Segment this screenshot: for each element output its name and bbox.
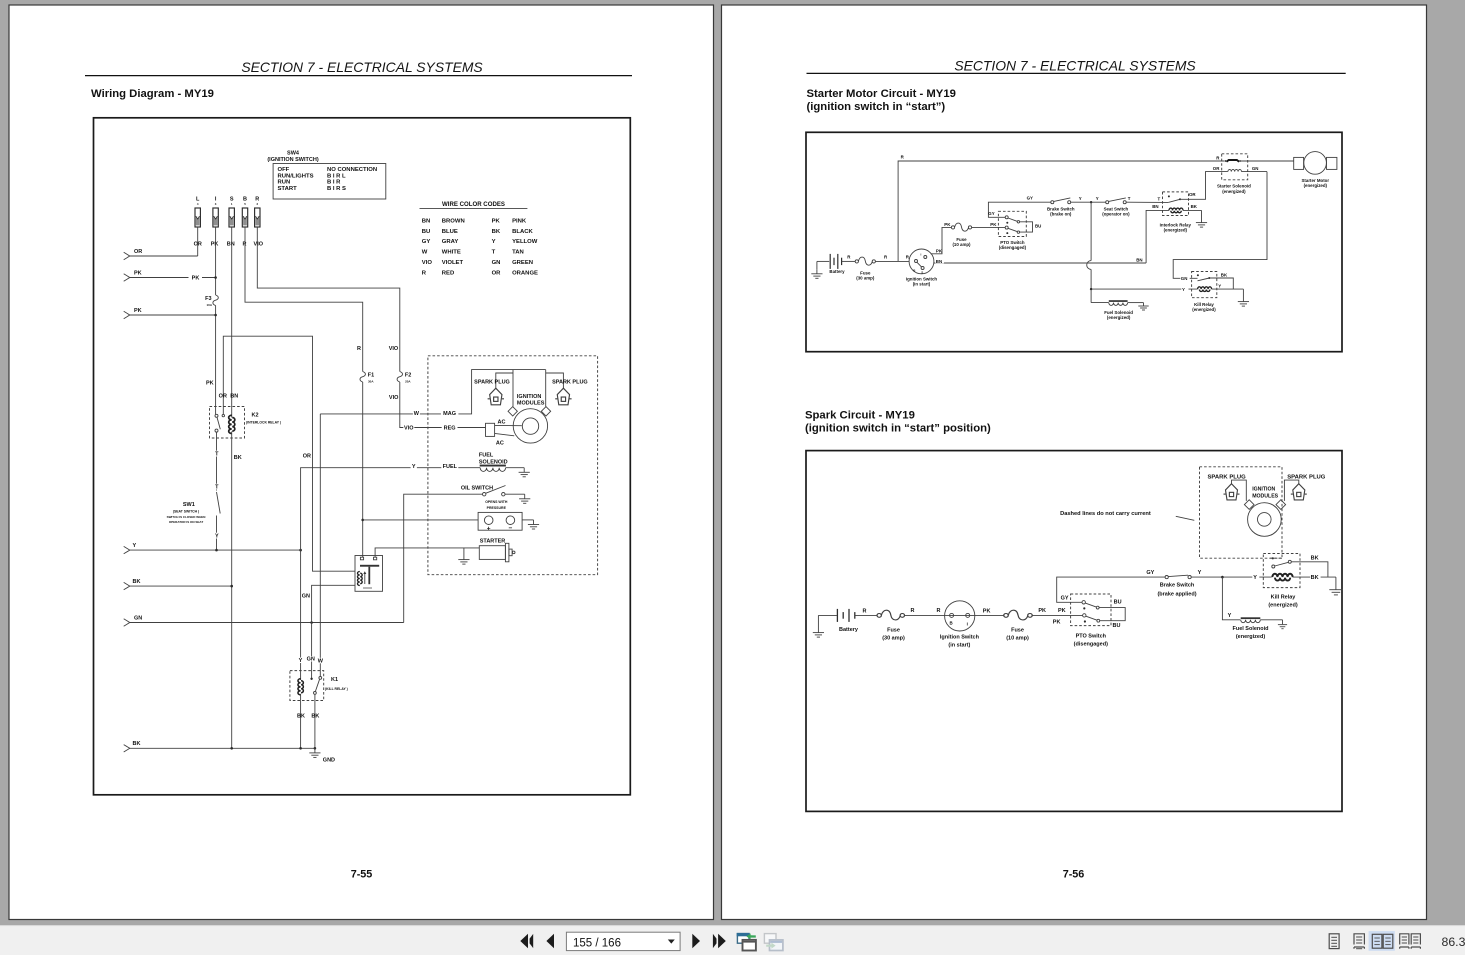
svg-text:155 / 166: 155 / 166: [573, 937, 621, 949]
ground battery left: [818, 614, 837, 616]
svg-text:GN: GN: [1252, 166, 1259, 171]
fuse 30 amp: [877, 610, 904, 620]
svg-text:(brake applied): (brake applied): [1157, 592, 1196, 598]
relay K2 coil: [229, 415, 235, 433]
wire Y drop to fuel solenoid: [1222, 577, 1240, 620]
svg-text:BN: BN: [227, 241, 235, 247]
svg-text:FUEL: FUEL: [443, 464, 458, 470]
toolbar background: [0, 926, 1465, 955]
svg-text:GY: GY: [1061, 596, 1069, 602]
svg-text:RUN: RUN: [278, 180, 291, 186]
ignition module left: [508, 407, 517, 416]
svg-text:25A: 25A: [405, 379, 411, 383]
svg-text:SPARK PLUG: SPARK PLUG: [1287, 475, 1326, 481]
relay K1 kill relay box: [290, 671, 324, 701]
kill relay coil: [1198, 287, 1212, 292]
svg-text:YELLOW: YELLOW: [512, 239, 538, 245]
svg-text:(SEAT SWITCH ): (SEAT SWITCH ): [173, 510, 199, 514]
svg-text:PK: PK: [134, 271, 142, 277]
wire GY PTO to brake switch: [988, 202, 1050, 217]
facing pages view icon selected: [1369, 931, 1395, 951]
wire W magneto to MAG label line: [320, 370, 545, 414]
ground fuel solenoid: [1143, 303, 1145, 306]
svg-text:SPARK PLUG: SPARK PLUG: [1208, 475, 1247, 481]
svg-text:OFF: OFF: [278, 167, 290, 173]
svg-text:SW1: SW1: [183, 502, 195, 508]
svg-text:PRESSURE: PRESSURE: [487, 506, 507, 510]
wire R battery to fuse: [842, 260, 856, 262]
wire GN entry to oil switch riser: [130, 622, 404, 624]
wire pin L stem: [197, 227, 199, 256]
engine dashed boundary box: [1200, 467, 1283, 558]
svg-text:BK: BK: [234, 455, 242, 461]
svg-text:BROWN: BROWN: [442, 218, 465, 224]
ground GND: [309, 748, 320, 757]
kill relay box: [1263, 554, 1300, 588]
svg-text:Y: Y: [1253, 575, 1257, 581]
svg-text:Y: Y: [1096, 196, 1099, 201]
ground kill relay: [1242, 289, 1244, 297]
wire pin I vertical upper: [215, 227, 217, 295]
wire BN ignition switch to interlock riser: [934, 262, 1146, 264]
single page view icon: [1329, 934, 1339, 949]
svg-text:B I R L: B I R L: [327, 173, 346, 179]
header underline: [85, 75, 632, 77]
svg-text:BU: BU: [1114, 599, 1122, 605]
wire VIO fuse F2 to REG line: [400, 382, 486, 428]
svg-text:PK: PK: [1053, 619, 1061, 625]
relay K2 interlock relay box: [210, 407, 245, 439]
starter solenoid block: [355, 556, 383, 592]
junction dots on PK vertical: [214, 276, 217, 279]
wire BN riser to interlock coil: [1146, 210, 1169, 263]
relay K2 switch contact: [215, 414, 218, 417]
svg-text:Y: Y: [1079, 196, 1082, 201]
svg-text:BK: BK: [1221, 272, 1228, 277]
kill relay box: [1192, 272, 1217, 298]
svg-text:(INTERLOCK RELAY ): (INTERLOCK RELAY ): [246, 421, 281, 425]
svg-text:W: W: [414, 411, 420, 417]
svg-text:BK: BK: [297, 714, 305, 720]
svg-text:(10 amp): (10 amp): [952, 242, 971, 247]
wire pin I vertical lower PK to K2: [215, 306, 217, 415]
kill relay coil: [1272, 574, 1292, 581]
svg-text:R: R: [863, 608, 867, 614]
svg-text:I: I: [967, 621, 968, 626]
svg-text:BN: BN: [230, 393, 238, 399]
previous page button: [546, 934, 554, 949]
wire BN pin S to K2 coil: [231, 227, 233, 418]
PTO switch box: [1071, 594, 1111, 626]
svg-text:BU: BU: [1113, 623, 1121, 629]
svg-text:TAN: TAN: [512, 250, 524, 256]
wire BK K1 coil to ground bus: [300, 694, 302, 749]
facing continuous view icon: [1400, 934, 1421, 949]
svg-text:(10 amp): (10 amp): [1006, 635, 1029, 641]
svg-text:SPARK PLUG: SPARK PLUG: [552, 379, 588, 385]
node PK harness entry 1: [124, 274, 130, 281]
page number field: [566, 932, 680, 950]
connector pin S1: [227, 197, 235, 248]
wire PK ignition to fuse 10: [931, 227, 952, 253]
brake switch (brake applied): [1165, 576, 1168, 579]
wire GN branch to engine block and K1: [312, 585, 355, 678]
svg-text:Y: Y: [299, 658, 303, 664]
svg-text:Battery: Battery: [829, 269, 845, 274]
svg-text:START: START: [278, 186, 298, 192]
svg-text:AC: AC: [498, 420, 506, 426]
wire T K2 to seat switch SW1: [216, 432, 218, 490]
svg-text:(ignition switch in “start”): (ignition switch in “start”): [807, 101, 946, 113]
ignition module right: [541, 407, 550, 416]
svg-text:(in start): (in start): [948, 643, 970, 649]
ground starter: [463, 548, 465, 560]
fuse F3 10A: [213, 295, 218, 306]
wire GN solenoid to kill relay: [1173, 172, 1267, 279]
svg-text:Dashed lines do not carry curr: Dashed lines do not carry current: [1060, 511, 1151, 517]
wire R fuse F1 to solenoid block terminal: [362, 382, 364, 557]
svg-text:Ignition Switch: Ignition Switch: [940, 635, 980, 641]
svg-text:Starter Motor Circuit - MY19: Starter Motor Circuit - MY19: [807, 88, 956, 100]
svg-text:(brake on): (brake on): [1050, 212, 1072, 217]
wire VIO to REG done above; labels on REG line: [403, 425, 414, 430]
seat switch SW1: [217, 492, 221, 514]
svg-text:(ignition switch in “start” po: (ignition switch in “start” position): [805, 423, 991, 435]
svg-text:Y: Y: [133, 543, 137, 549]
svg-text:AC: AC: [496, 440, 504, 446]
wire R junction to engine connector block: [363, 519, 478, 521]
svg-text:BLACK: BLACK: [512, 229, 533, 235]
wire Y brake to seat switch: [1071, 201, 1106, 203]
svg-text:OR: OR: [134, 249, 142, 255]
svg-text:FUEL: FUEL: [479, 453, 494, 459]
svg-text:10A: 10A: [206, 303, 212, 307]
svg-text:GN: GN: [307, 656, 315, 662]
svg-text:(energized): (energized): [1236, 634, 1266, 640]
seat switch (operator on): [1106, 201, 1109, 204]
svg-text:(IGNITION SWITCH): (IGNITION SWITCH): [267, 157, 318, 163]
svg-text:7-55: 7-55: [351, 869, 373, 881]
continuous view icon: [1354, 934, 1364, 949]
wire PK entry to pin I vertical: [130, 277, 216, 279]
spark plug left: [488, 388, 504, 405]
ground connector block: [522, 519, 533, 521]
wire Y riser to fuel solenoid line: [301, 468, 481, 550]
header underline right: [807, 72, 1346, 74]
svg-text:(energized): (energized): [1192, 307, 1216, 312]
svg-text:K2: K2: [252, 413, 259, 419]
svg-text:Y: Y: [1182, 287, 1185, 292]
svg-text:OR: OR: [303, 454, 311, 460]
svg-text:Fuse: Fuse: [887, 628, 900, 634]
interlock relay coil: [1169, 208, 1183, 213]
wire GY PTO to brake switch: [1057, 577, 1165, 602]
svg-text:OR: OR: [219, 393, 227, 399]
svg-text:VIO: VIO: [389, 395, 399, 401]
wire GN riser to oil switch: [404, 494, 483, 622]
wire VIO pin R to fuse F2: [257, 227, 400, 372]
fuel solenoid coil: [480, 465, 506, 467]
fuse F1 30A: [360, 372, 365, 383]
ignition switch (in start): [909, 249, 934, 274]
wire R fuse to ignition switch: [875, 260, 909, 262]
svg-text:GY: GY: [422, 239, 431, 245]
starter solenoid contact R: [1227, 160, 1240, 162]
svg-text:OR: OR: [1213, 166, 1220, 171]
svg-text:86.36%: 86.36%: [1442, 935, 1465, 949]
interlock relay box: [1163, 192, 1189, 216]
next page button: [692, 934, 700, 949]
svg-text:GY: GY: [1027, 196, 1033, 201]
starter circuit frame: [806, 132, 1342, 351]
svg-text:BU: BU: [1035, 224, 1041, 229]
flywheel magneto: [1248, 503, 1282, 537]
svg-text:−: −: [509, 525, 513, 532]
svg-text:PK: PK: [990, 222, 997, 227]
last page button: [713, 934, 717, 948]
svg-text:OPERATOR IS ON SEAT: OPERATOR IS ON SEAT: [169, 520, 204, 524]
svg-text:GN: GN: [302, 593, 310, 599]
node BK ground bus entry: [124, 745, 130, 752]
svg-text:B I R S: B I R S: [327, 186, 346, 192]
svg-text:PK: PK: [936, 248, 943, 253]
svg-text:IGNITION: IGNITION: [517, 394, 541, 400]
svg-text:BU: BU: [422, 229, 431, 235]
fuse 10 amp: [1004, 610, 1032, 620]
wire T seat to interlock relay: [1126, 201, 1168, 203]
fuel solenoid: [1109, 300, 1128, 302]
svg-text:(KILL RELAY ): (KILL RELAY ): [325, 687, 348, 691]
wire BK kill switch to main: [1291, 562, 1328, 577]
svg-text:Y: Y: [215, 534, 219, 540]
svg-text:(disengaged): (disengaged): [999, 245, 1027, 250]
svg-text:Fuel Solenoid: Fuel Solenoid: [1232, 626, 1268, 632]
svg-text:MODULES: MODULES: [1252, 493, 1278, 499]
wire OR interlock to starter solenoid coil: [1180, 172, 1228, 200]
wire PK fuse to PTO: [1032, 614, 1083, 616]
svg-text:SW4: SW4: [287, 150, 300, 156]
svg-text:R: R: [357, 346, 361, 352]
svg-text:VIO: VIO: [422, 260, 433, 266]
hop of Y drop over BN wire: [1087, 261, 1091, 270]
svg-text:K1: K1: [331, 677, 338, 683]
svg-text:Spark Circuit - MY19: Spark Circuit - MY19: [805, 410, 915, 422]
svg-text:BN: BN: [1152, 204, 1158, 209]
svg-text:RUN/LIGHTS: RUN/LIGHTS: [278, 173, 314, 179]
PTO right bracket BU: [1099, 608, 1125, 621]
wire ignition module feeds: [512, 370, 514, 407]
svg-text:OIL SWITCH: OIL SWITCH: [461, 486, 493, 492]
svg-text:VIO: VIO: [254, 241, 264, 247]
node PK harness entry 2: [124, 311, 130, 318]
svg-text:T: T: [492, 250, 496, 256]
ground fuel solenoid: [519, 468, 530, 477]
svg-text:Y: Y: [1228, 613, 1232, 619]
connector pin L4: [194, 197, 202, 248]
svg-text:ORANGE: ORANGE: [512, 271, 538, 277]
svg-text:PK: PK: [192, 275, 200, 281]
svg-text:REG: REG: [444, 426, 456, 432]
starter motor: [1294, 157, 1304, 169]
svg-text:T: T: [1158, 196, 1161, 201]
node GN harness entry: [124, 619, 130, 626]
schematic frame: [94, 118, 631, 795]
svg-text:(disengaged): (disengaged): [1074, 641, 1108, 647]
fuse F 10 amp: [951, 223, 971, 231]
PTO switch box (disengaged): [998, 211, 1026, 236]
svg-text:B I R: B I R: [327, 180, 341, 186]
svg-text:GN: GN: [492, 260, 501, 266]
wire R contact to starter motor: [1241, 160, 1294, 162]
wire BK kill switch to ground drop: [1209, 278, 1233, 289]
connector pin B5: [242, 197, 247, 248]
svg-text:Y: Y: [1218, 284, 1221, 289]
svg-text:R: R: [243, 241, 247, 247]
node BK harness entry: [124, 582, 130, 589]
svg-text:(operator on): (operator on): [1102, 212, 1130, 217]
svg-text:SWITCH IS CLOSED WHEN: SWITCH IS CLOSED WHEN: [167, 515, 206, 519]
left page sheet: [9, 5, 714, 920]
svg-text:(in start): (in start): [913, 281, 931, 286]
svg-text:(energized): (energized): [1164, 228, 1188, 233]
svg-text:GY: GY: [1146, 570, 1154, 576]
svg-text:VIO: VIO: [404, 426, 414, 432]
svg-text:PK: PK: [134, 308, 142, 314]
wire OR branch K2 to engine block coil: [223, 336, 355, 571]
svg-text:Y: Y: [412, 464, 416, 470]
relay K1 switch: [310, 678, 312, 680]
svg-text:Wiring Diagram - MY19: Wiring Diagram - MY19: [91, 88, 214, 100]
wire PK entry 2 to pin I vertical: [130, 314, 216, 316]
svg-text:WIRE COLOR CODES: WIRE COLOR CODES: [442, 201, 505, 208]
svg-text:(energized): (energized): [1304, 183, 1328, 188]
battery: [836, 609, 838, 622]
svg-text:SPARK PLUG: SPARK PLUG: [474, 379, 510, 385]
wire BK K1 switch to ground bus: [314, 694, 316, 748]
svg-text:Fuse: Fuse: [1011, 627, 1024, 633]
svg-text:F1: F1: [368, 372, 374, 378]
svg-text:GND: GND: [323, 757, 335, 763]
wire R pin B to fuse F1: [245, 227, 363, 372]
wire Y to kill relay coil: [1091, 288, 1197, 290]
ignition module right: [1276, 500, 1286, 510]
svg-text:PK: PK: [944, 222, 951, 227]
svg-text:(energized): (energized): [1268, 602, 1298, 608]
fuel solenoid: [1241, 617, 1261, 619]
ignition switch circle: [945, 601, 975, 631]
svg-text:BK: BK: [492, 229, 501, 235]
svg-text:R: R: [911, 608, 915, 614]
ground kill relay main: [1335, 577, 1337, 590]
svg-text:(energized): (energized): [1222, 189, 1246, 194]
svg-text:GRAY: GRAY: [442, 239, 459, 245]
svg-text:BK: BK: [133, 741, 141, 747]
svg-text:(energized): (energized): [1107, 315, 1131, 320]
svg-text:BK: BK: [1311, 575, 1319, 581]
engine dashed boundary box: [428, 356, 598, 575]
svg-text:W: W: [422, 250, 428, 256]
svg-text:PK: PK: [1038, 608, 1046, 614]
svg-text:VIO: VIO: [389, 346, 399, 352]
svg-text:(30 amp): (30 amp): [856, 276, 875, 281]
ignition switch table SW4: [273, 164, 386, 200]
svg-text:GN: GN: [1181, 276, 1188, 281]
svg-text:SECTION 7 - ELECTRICAL SYSTEMS: SECTION 7 - ELECTRICAL SYSTEMS: [241, 59, 483, 75]
svg-text:PTO Switch: PTO Switch: [1076, 633, 1107, 639]
svg-text:GY: GY: [988, 211, 994, 216]
svg-text:Kill Relay: Kill Relay: [1271, 594, 1297, 600]
PTO right bracket BU: [1020, 222, 1033, 232]
node OR harness entry: [124, 252, 130, 259]
svg-text:MAG: MAG: [443, 411, 456, 417]
fuse F 30 amp: [855, 257, 875, 265]
svg-text:BK: BK: [1191, 204, 1198, 209]
first page button: [520, 934, 528, 949]
ground fuel solenoid: [1282, 620, 1284, 625]
wire OR entry to pin L: [130, 255, 198, 257]
wire Y entry line: [130, 549, 301, 551]
svg-text:SECTION 7 - ELECTRICAL SYSTEMS: SECTION 7 - ELECTRICAL SYSTEMS: [954, 58, 1196, 74]
wire BK ground bus: [130, 747, 315, 749]
svg-text:VIOLET: VIOLET: [442, 260, 464, 266]
ignition module left: [1244, 500, 1254, 510]
next view button disabled: [764, 934, 783, 951]
connector pin R2: [254, 197, 264, 248]
wire Y drop from main line to fuel solenoid: [1090, 202, 1092, 260]
voltage regulator connector: [486, 423, 495, 436]
svg-text:PK: PK: [492, 218, 501, 224]
svg-text:30A: 30A: [368, 379, 374, 383]
svg-text:W: W: [318, 658, 324, 664]
svg-text:B: B: [950, 621, 953, 626]
svg-text:WHITE: WHITE: [442, 250, 461, 256]
right page sheet: [722, 5, 1427, 920]
starter solenoid box: [1222, 154, 1248, 180]
wire spark plug leads: [1232, 480, 1247, 501]
fuse F2 25A: [397, 372, 402, 383]
svg-text:PK: PK: [206, 381, 214, 387]
svg-text:RED: RED: [442, 271, 454, 277]
svg-text:+: +: [487, 525, 491, 532]
spark plug right: [555, 388, 571, 405]
ground oil switch: [519, 494, 530, 503]
svg-text:PINK: PINK: [512, 218, 527, 224]
svg-text:BN: BN: [422, 218, 431, 224]
svg-text:Y: Y: [492, 239, 496, 245]
svg-text:Y: Y: [1198, 570, 1202, 576]
wire Y drop to K1 coil: [300, 550, 302, 680]
wire Y brake to kill relay: [1191, 576, 1271, 578]
svg-text:S: S: [921, 270, 923, 274]
svg-text:PK: PK: [983, 608, 991, 614]
svg-text:BLUE: BLUE: [442, 229, 458, 235]
svg-text:T: T: [1128, 196, 1131, 201]
wire spark plug leads: [496, 373, 513, 388]
junction node R battery feed: [361, 519, 364, 522]
svg-text:(30 amp): (30 amp): [882, 636, 905, 642]
connector pin I3: [211, 197, 219, 248]
svg-text:R: R: [422, 271, 427, 277]
svg-text:BN: BN: [936, 259, 942, 264]
dashed line from engine to kill relay: [1269, 557, 1282, 559]
svg-text:R: R: [937, 608, 941, 614]
wire R riser to starter solenoid contact: [898, 161, 1224, 261]
svg-text:BK: BK: [1311, 555, 1319, 561]
svg-text:7-56: 7-56: [1063, 869, 1085, 881]
svg-text:OPENS WITH: OPENS WITH: [485, 500, 508, 504]
svg-text:GN: GN: [134, 616, 142, 622]
wire W from MAG line to K1: [319, 414, 321, 677]
